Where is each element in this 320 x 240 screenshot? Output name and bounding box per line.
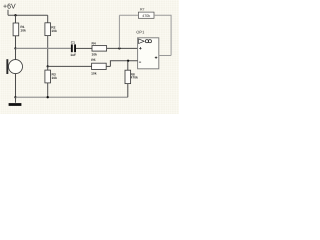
svg-text:10k: 10k (52, 76, 58, 80)
wire +6V rail (8, 14, 48, 16)
wire R3 bottom lead (47, 83, 49, 97)
node feedback junction dot (118, 47, 120, 49)
wire R5 jog to op-amp minus input (110, 61, 137, 67)
capacitor C1 (70, 40, 76, 57)
resistor R2 (45, 23, 57, 36)
wire feedback vertical (118, 15, 120, 48)
svg-text:10k: 10k (20, 29, 26, 33)
wire +6V stub (7, 10, 9, 16)
wire R8 top lead (127, 61, 129, 70)
svg-text:10k: 10k (92, 52, 98, 56)
svg-text:R5: R5 (91, 58, 95, 62)
wire C1 to R4 (76, 47, 92, 49)
wire ground bus (16, 96, 128, 98)
resistor R3 (45, 70, 57, 83)
wire R2 top lead (47, 15, 49, 22)
wire R4 to op-amp plus input (107, 47, 138, 49)
node ground bus left dot (14, 96, 16, 98)
wire R5 left lead is divider wire; right lead to jog (106, 65, 110, 67)
resistor R8 (125, 70, 138, 83)
wire R1 bottom lead (15, 36, 17, 49)
wire R2 bottom lead (47, 36, 49, 67)
resistor R5 (91, 58, 106, 76)
microphone M1 (6, 59, 22, 74)
wire op-amp output (159, 55, 171, 57)
svg-text:1uF: 1uF (70, 53, 76, 57)
svg-text:R7: R7 (140, 8, 145, 12)
wire mic top lead (15, 48, 17, 60)
svg-text:10k: 10k (91, 72, 97, 76)
wire feedback horizontal (119, 14, 138, 16)
wire R3 top lead (47, 66, 49, 70)
wire signal to C1 (16, 47, 71, 49)
node divider junction dot (47, 65, 49, 67)
svg-text:+6V: +6V (3, 4, 16, 11)
svg-text:470k: 470k (131, 76, 139, 80)
svg-text:OP1: OP1 (136, 29, 145, 34)
ground (9, 103, 22, 106)
wire R1 top lead (15, 15, 17, 23)
wire R8 bottom lead to ground bus (127, 84, 129, 98)
svg-text:C1: C1 (71, 40, 75, 44)
node R8 junction dot (127, 60, 129, 62)
wire divider to R5 (48, 65, 92, 67)
wire R7 right to output (154, 15, 171, 55)
node signal junction dot (14, 47, 16, 49)
svg-text:R4: R4 (92, 41, 96, 45)
op-amp OP1 (136, 29, 159, 69)
wire mic bottom lead (15, 73, 17, 97)
svg-text:470k: 470k (142, 14, 150, 18)
node rail junction dot (14, 14, 16, 16)
node R3 ground dot (47, 96, 49, 98)
resistor R7 (138, 8, 154, 19)
resistor R4 (92, 41, 107, 56)
wire ground stub (15, 97, 17, 103)
svg-text:10k: 10k (51, 29, 57, 33)
resistor R1 (13, 23, 26, 36)
